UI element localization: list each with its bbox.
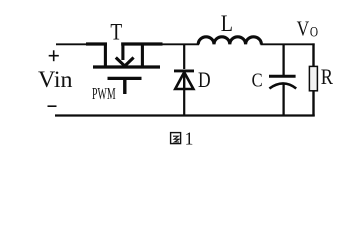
svg-text:Vin: Vin	[38, 67, 73, 92]
svg-text:C: C	[252, 70, 263, 91]
svg-text:L: L	[221, 11, 233, 36]
capacitor C symbol (straight + curved plate)	[269, 76, 296, 88]
svg-text:PWM: PWM	[92, 84, 116, 103]
plus terminal mark	[49, 50, 59, 61]
wire: input top from Vin+ to transistor	[56, 43, 88, 45]
label R	[321, 64, 333, 89]
node label Vo	[297, 17, 319, 41]
wire: transistor source to inductor, diode tap	[161, 43, 199, 45]
resistor R body	[309, 66, 317, 90]
resistor R bottom lead	[312, 91, 314, 117]
svg-text:V: V	[297, 17, 310, 41]
transistor T (PWM-driven MOSFET switch)	[86, 43, 163, 95]
capacitor C bottom lead	[282, 84, 284, 116]
svg-text:1: 1	[185, 129, 194, 149]
svg-text:R: R	[321, 64, 333, 89]
resistor R top lead	[312, 43, 314, 66]
svg-text:D: D	[198, 67, 211, 92]
label T	[110, 20, 122, 46]
label C	[252, 70, 263, 91]
inductor L (4 humps)	[198, 37, 261, 45]
minus terminal mark	[48, 105, 57, 107]
label PWM	[92, 84, 116, 103]
wire: bottom return rail	[55, 114, 315, 116]
wire: inductor to output corner	[261, 43, 315, 45]
svg-text:O: O	[310, 24, 318, 40]
svg-text:T: T	[110, 20, 122, 46]
diode D vertical leads	[183, 44, 185, 116]
caption 图1 (figure 1)	[171, 129, 194, 149]
label L	[221, 11, 233, 36]
label D	[198, 67, 211, 92]
label Vin	[38, 67, 73, 92]
capacitor C top lead	[282, 44, 284, 77]
diode D symbol (cathode bar + triangle)	[174, 70, 194, 89]
